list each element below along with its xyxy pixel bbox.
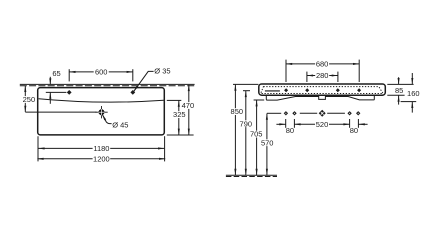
- dim 1180 line: [38, 147, 164, 149]
- dim 850 line: [234, 85, 236, 175]
- dim 250 line: [24, 86, 26, 112]
- svg-text:1200: 1200: [93, 154, 110, 163]
- fixing hole 3: [347, 111, 351, 115]
- svg-text:Ø 35: Ø 35: [154, 67, 170, 76]
- rim hole 2: [305, 88, 309, 92]
- svg-text:1180: 1180: [93, 144, 109, 153]
- svg-text:680: 680: [316, 60, 329, 69]
- label 680: [315, 61, 329, 68]
- svg-text:325: 325: [173, 110, 186, 119]
- tap hole 1: [67, 90, 72, 95]
- svg-text:520: 520: [316, 120, 329, 129]
- dim 80 right tail arrow: [359, 123, 368, 125]
- dim 85 lower arrow: [398, 96, 400, 105]
- dim 80 extension lines right: [349, 119, 351, 128]
- svg-text:790: 790: [240, 119, 253, 128]
- dim 470 line: [188, 85, 190, 135]
- wall line dashes: [20, 85, 195, 87]
- dim 325 line: [178, 101, 180, 135]
- dim 790 extension: [243, 90, 250, 92]
- rim hole 1: [284, 88, 288, 92]
- svg-text:65: 65: [52, 69, 60, 78]
- rim hole 4: [357, 88, 361, 92]
- dim 1180/1200 extension lines: [37, 136, 39, 161]
- label 790: [240, 120, 252, 127]
- dim 570 line: [266, 114, 268, 176]
- dim 325 extension top: [167, 99, 182, 101]
- leader for drain dia: [102, 114, 111, 123]
- dim 280 extension lines: [306, 72, 308, 82]
- label 250: [23, 96, 35, 103]
- rim outline: [259, 84, 386, 95]
- svg-text:85: 85: [395, 86, 403, 95]
- dim 280 line: [307, 75, 338, 77]
- svg-text:570: 570: [261, 138, 274, 147]
- overflow slot: [265, 90, 280, 92]
- fixing hole 1: [284, 111, 288, 115]
- label 600: [94, 68, 109, 75]
- dim 705 line: [256, 100, 258, 175]
- rim hole 3: [336, 88, 340, 92]
- tap hole level line: [46, 91, 67, 93]
- dim 850 extension: [233, 83, 258, 85]
- wall line solid: [20, 83, 195, 85]
- label 1200: [93, 155, 111, 162]
- rim inner dotted line: [261, 87, 383, 94]
- fixing hole row line segments: [267, 112, 281, 114]
- dim 160 upper arrow: [411, 73, 413, 84]
- basin inner rim line: [39, 99, 164, 102]
- label 705: [250, 131, 262, 138]
- floor line solid: [226, 174, 277, 176]
- dim 520 line: [294, 123, 349, 125]
- svg-text:470: 470: [182, 101, 195, 110]
- dim 65 lower arrow: [49, 93, 51, 104]
- center outlet symbol: [319, 110, 326, 117]
- label 325: [173, 111, 185, 118]
- dim 790 line: [245, 91, 247, 175]
- svg-text:80: 80: [350, 126, 358, 135]
- svg-text:250: 250: [23, 95, 36, 104]
- label 850: [231, 108, 243, 115]
- label 1180: [93, 145, 111, 152]
- dim 85 upper arrow: [398, 77, 400, 84]
- dim 85 extension top: [387, 83, 413, 85]
- dim 80 left tail arrow: [276, 123, 285, 125]
- dim 600 line: [69, 71, 133, 73]
- dim 600 extension lines: [68, 69, 70, 81]
- underbody profile: [266, 95, 374, 100]
- basin outline: [38, 88, 165, 135]
- svg-text:Ø 45: Ø 45: [112, 120, 128, 129]
- label 470: [182, 102, 194, 109]
- dim 680 line: [286, 63, 359, 65]
- dim 160 lower arrow: [411, 102, 413, 113]
- leader for tap hole dia: [134, 71, 154, 91]
- dim 680 extension lines: [285, 60, 287, 82]
- drain level line: [25, 111, 96, 113]
- label 520: [315, 121, 329, 128]
- dim 80 extension lines left: [285, 119, 287, 128]
- tap hole 2: [130, 90, 135, 95]
- fixing hole 4: [356, 111, 360, 115]
- label 280: [315, 72, 329, 79]
- floor line dashes: [226, 176, 277, 178]
- bottom extension line right: [167, 134, 194, 136]
- dim 1200 line: [37, 158, 165, 160]
- dim 160 extension bottom: [401, 101, 417, 103]
- label 570: [261, 139, 273, 146]
- drain symbol: [95, 106, 107, 118]
- svg-text:850: 850: [231, 107, 244, 116]
- svg-text:600: 600: [95, 68, 108, 77]
- dim 85 extension bottom: [387, 94, 404, 96]
- svg-text:80: 80: [286, 126, 294, 135]
- svg-text:280: 280: [316, 71, 329, 80]
- fixing hole 2: [292, 111, 296, 115]
- svg-text:160: 160: [407, 89, 420, 98]
- dim 705 extension: [254, 99, 265, 101]
- dim 65 upper arrow: [49, 77, 51, 85]
